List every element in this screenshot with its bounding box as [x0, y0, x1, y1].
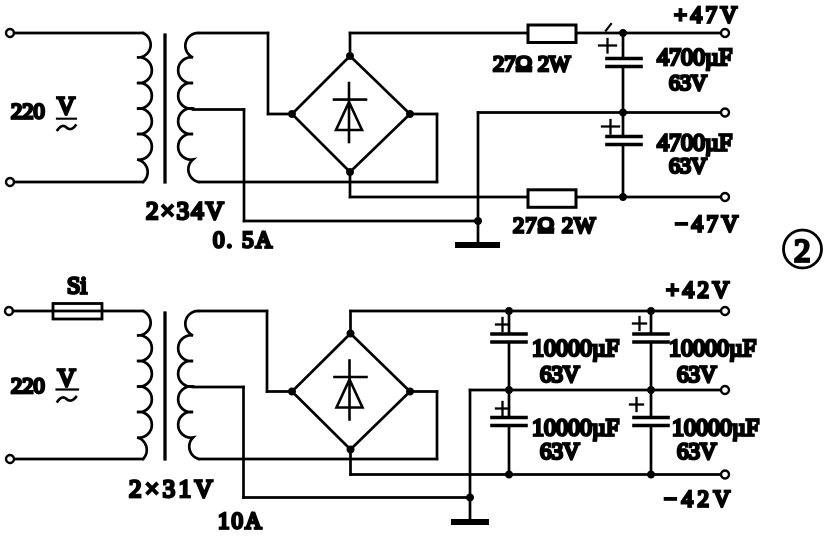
wire: junction to -47V terminal: [623, 196, 721, 199]
capacitor C3 10000uF plates: [492, 334, 526, 342]
bridge rectifier D1 diamond: [292, 56, 410, 172]
wire: down to secondary bottom wire: [436, 392, 439, 460]
svg-text:63V: 63V: [669, 153, 707, 178]
node: +47V junction with C1: [619, 29, 627, 37]
node: +rail junction C5: [647, 307, 655, 315]
svg-text:10000µF: 10000µF: [669, 336, 756, 362]
wire: secondary bottom to bridge right circuit 2: [199, 458, 437, 461]
wire: -rail from bridge to resistor R2: [350, 196, 528, 199]
transformer T1 secondary winding upper half: [178, 33, 199, 109]
capacitor C1 4700uF plates: [607, 59, 641, 67]
terminal: +47V output: [721, 29, 729, 37]
svg-text:2: 2: [794, 234, 811, 270]
svg-text:2×34V: 2×34V: [146, 198, 226, 225]
svg-text:63V: 63V: [677, 439, 717, 464]
svg-text:4700µF: 4700µF: [657, 45, 732, 71]
wire: bridge D1 bottom vertex down: [349, 172, 352, 197]
wire: C6 top lead: [650, 390, 653, 418]
node: bridge D1 right vertex junction: [406, 110, 414, 118]
wire: terminal to fuse and transformer T2: [13, 310, 143, 313]
bridge rectifier D2 diamond: [292, 334, 410, 450]
node: bridge D2 top vertex junction: [347, 330, 355, 338]
wire: mid rail circuit 2: [470, 389, 721, 392]
wire: mid rail: [478, 111, 721, 114]
svg-text:63V: 63V: [540, 362, 580, 387]
node: mid rail junction C5/C6: [647, 386, 655, 394]
transformer T1 core: [163, 35, 166, 182]
capacitor C5 10000uF plates: [634, 334, 668, 342]
label: C2 polarity +: [602, 120, 619, 134]
svg-text:+42V: +42V: [666, 278, 733, 303]
svg-text:V: V: [57, 93, 75, 120]
wire: R1 to +47V node: [576, 32, 623, 35]
svg-text:63V: 63V: [540, 439, 580, 464]
fuse Si body: [53, 304, 102, 320]
wire: down to secondary bottom wire: [436, 114, 439, 182]
ground: circuit 2: [469, 498, 472, 520]
transformer T2 secondary winding lower half: [178, 386, 199, 459]
label: C1 polarity +: [599, 24, 616, 53]
terminal: mid rail output circuit 2: [721, 386, 729, 394]
wire: bridge D1 top vertex up to +rail: [349, 33, 352, 56]
transformer T2 primary winding: [137, 311, 152, 459]
node: -rail junction C4: [505, 471, 513, 479]
wire: +42V rail: [351, 310, 722, 313]
wire: C4 bottom lead: [508, 426, 511, 475]
svg-text:V: V: [58, 365, 76, 392]
ground: circuit 1: [477, 221, 480, 242]
wire: secondary top to corner: [199, 310, 267, 313]
wire: mid rail down to ground node: [477, 113, 480, 222]
wire: T2 center tap out: [193, 386, 244, 389]
svg-text:10000µF: 10000µF: [672, 416, 759, 442]
wire: bridge D2 top vertex up to +rail: [349, 311, 352, 334]
wire: transformer T1 primary bottom to bottom-left terminal: [14, 181, 143, 184]
svg-text:+47V: +47V: [674, 3, 741, 28]
label: C3 polarity +: [496, 318, 509, 331]
bridge D1 inner diode symbol: [334, 83, 366, 142]
capacitor C2 4700uF plates: [607, 137, 641, 145]
terminal: +42V output: [721, 307, 729, 315]
transformer T1 secondary winding lower half: [178, 108, 199, 182]
wire: center tap to ground node: [244, 220, 478, 223]
terminal: -47V output: [721, 193, 729, 201]
svg-text:Si: Si: [67, 274, 87, 300]
wire: C6 bottom lead: [650, 426, 653, 475]
terminal: mid rail output: [721, 109, 729, 117]
label: C4 polarity +: [496, 402, 509, 415]
terminal: AC input bottom-left (circuit 1): [6, 178, 14, 186]
svg-text:27Ω 2W: 27Ω 2W: [493, 51, 571, 76]
wire: C4 top lead: [508, 390, 511, 418]
wire: T1 center tap out: [193, 108, 244, 111]
wire: bridge D2 right vertex right: [410, 390, 437, 393]
wire: mid rail down to ground: [469, 390, 472, 498]
node: -rail junction C6: [647, 471, 655, 479]
wire: bridge D2 bottom vertex down: [349, 450, 352, 475]
figure number circled 2: [784, 230, 822, 268]
node: +rail junction C3: [505, 307, 513, 315]
terminal: AC input top-left (circuit 1): [6, 29, 14, 37]
node: -47V junction with C2: [619, 193, 627, 201]
wire: center tap to ground node circuit 2: [244, 496, 471, 499]
transformer T2 core: [163, 313, 166, 459]
terminal: AC input top-left (circuit 2): [5, 307, 13, 315]
wire: T2 primary bottom to terminal: [14, 458, 143, 461]
wire: junction to +47V terminal: [623, 32, 721, 35]
transformer T1 primary winding: [137, 33, 152, 182]
capacitor C4 10000uF plates: [492, 418, 526, 426]
node: ground junction circuit 2: [466, 494, 474, 502]
node: bridge D1 top vertex junction: [346, 52, 354, 60]
wire: bridge D1 right vertex right: [410, 113, 437, 116]
node: bridge D2 right vertex junction: [406, 388, 414, 396]
wire: to bridge D2 left vertex: [267, 390, 292, 393]
terminal: AC input bottom-left (circuit 2): [6, 455, 14, 463]
wire: to bridge left vertex: [268, 113, 292, 116]
label: C6 polarity +: [630, 398, 643, 411]
wire: secondary bottom to bridge right: [199, 181, 437, 184]
wire: C3 top lead: [508, 311, 511, 334]
bridge D2 inner diode symbol: [335, 361, 367, 420]
wire: -42V rail: [351, 473, 722, 476]
svg-text:10000µF: 10000µF: [532, 336, 619, 362]
wire: corner down to bridge AC-left level: [267, 33, 270, 114]
transformer T2 secondary winding upper half: [178, 311, 199, 387]
wire: +rail from bridge to resistor R1: [350, 32, 528, 35]
terminal: -42V output: [721, 471, 729, 479]
wire: C3 bottom lead: [508, 342, 511, 390]
wire: secondary top terminal to corner x268: [199, 32, 268, 35]
node: mid rail junction with capacitors: [619, 109, 627, 117]
svg-text:220: 220: [11, 99, 45, 124]
svg-text:10000µF: 10000µF: [532, 416, 619, 442]
svg-text:27Ω 2W: 27Ω 2W: [513, 213, 596, 238]
svg-text:10A: 10A: [218, 509, 264, 534]
wire: C2 bottom lead to -rail: [622, 145, 625, 198]
wire: corner down: [266, 311, 269, 392]
svg-text:−47V: −47V: [675, 212, 742, 237]
resistor R1 27ohm 2W body: [528, 25, 576, 43]
label: C5 polarity +: [633, 317, 646, 330]
wire: C5 bottom lead: [650, 342, 653, 390]
svg-text:63V: 63V: [669, 70, 707, 95]
svg-text:−42V: −42V: [664, 487, 735, 512]
wire: C5 top lead: [650, 311, 653, 334]
wire: C2 top lead: [622, 113, 625, 137]
resistor R2 27ohm 2W body: [528, 190, 576, 208]
wire: top-left terminal to transformer T1 primary top: [14, 32, 143, 35]
wire: center tap down circuit 2: [242, 387, 245, 498]
node: ground junction circuit 1: [474, 217, 482, 225]
node: bridge D1 bottom vertex junction: [346, 168, 354, 176]
wire: R2 to -47V node: [576, 196, 623, 199]
node: bridge D2 left vertex junction: [288, 388, 296, 396]
wire: C1 bottom lead to mid rail: [622, 67, 625, 113]
svg-text:220: 220: [11, 373, 45, 398]
svg-text:0. 5A: 0. 5A: [213, 228, 274, 253]
node: bridge D2 bottom vertex junction: [347, 446, 355, 454]
svg-text:63V: 63V: [677, 362, 717, 387]
wire: center tap down: [243, 110, 246, 222]
capacitor C6 10000uF plates: [634, 418, 668, 426]
svg-text:2×31V: 2×31V: [129, 476, 216, 503]
node: bridge D1 left vertex junction: [288, 110, 296, 118]
wire: C1 top lead: [622, 33, 625, 59]
node: mid rail junction C3/C4: [505, 386, 513, 394]
